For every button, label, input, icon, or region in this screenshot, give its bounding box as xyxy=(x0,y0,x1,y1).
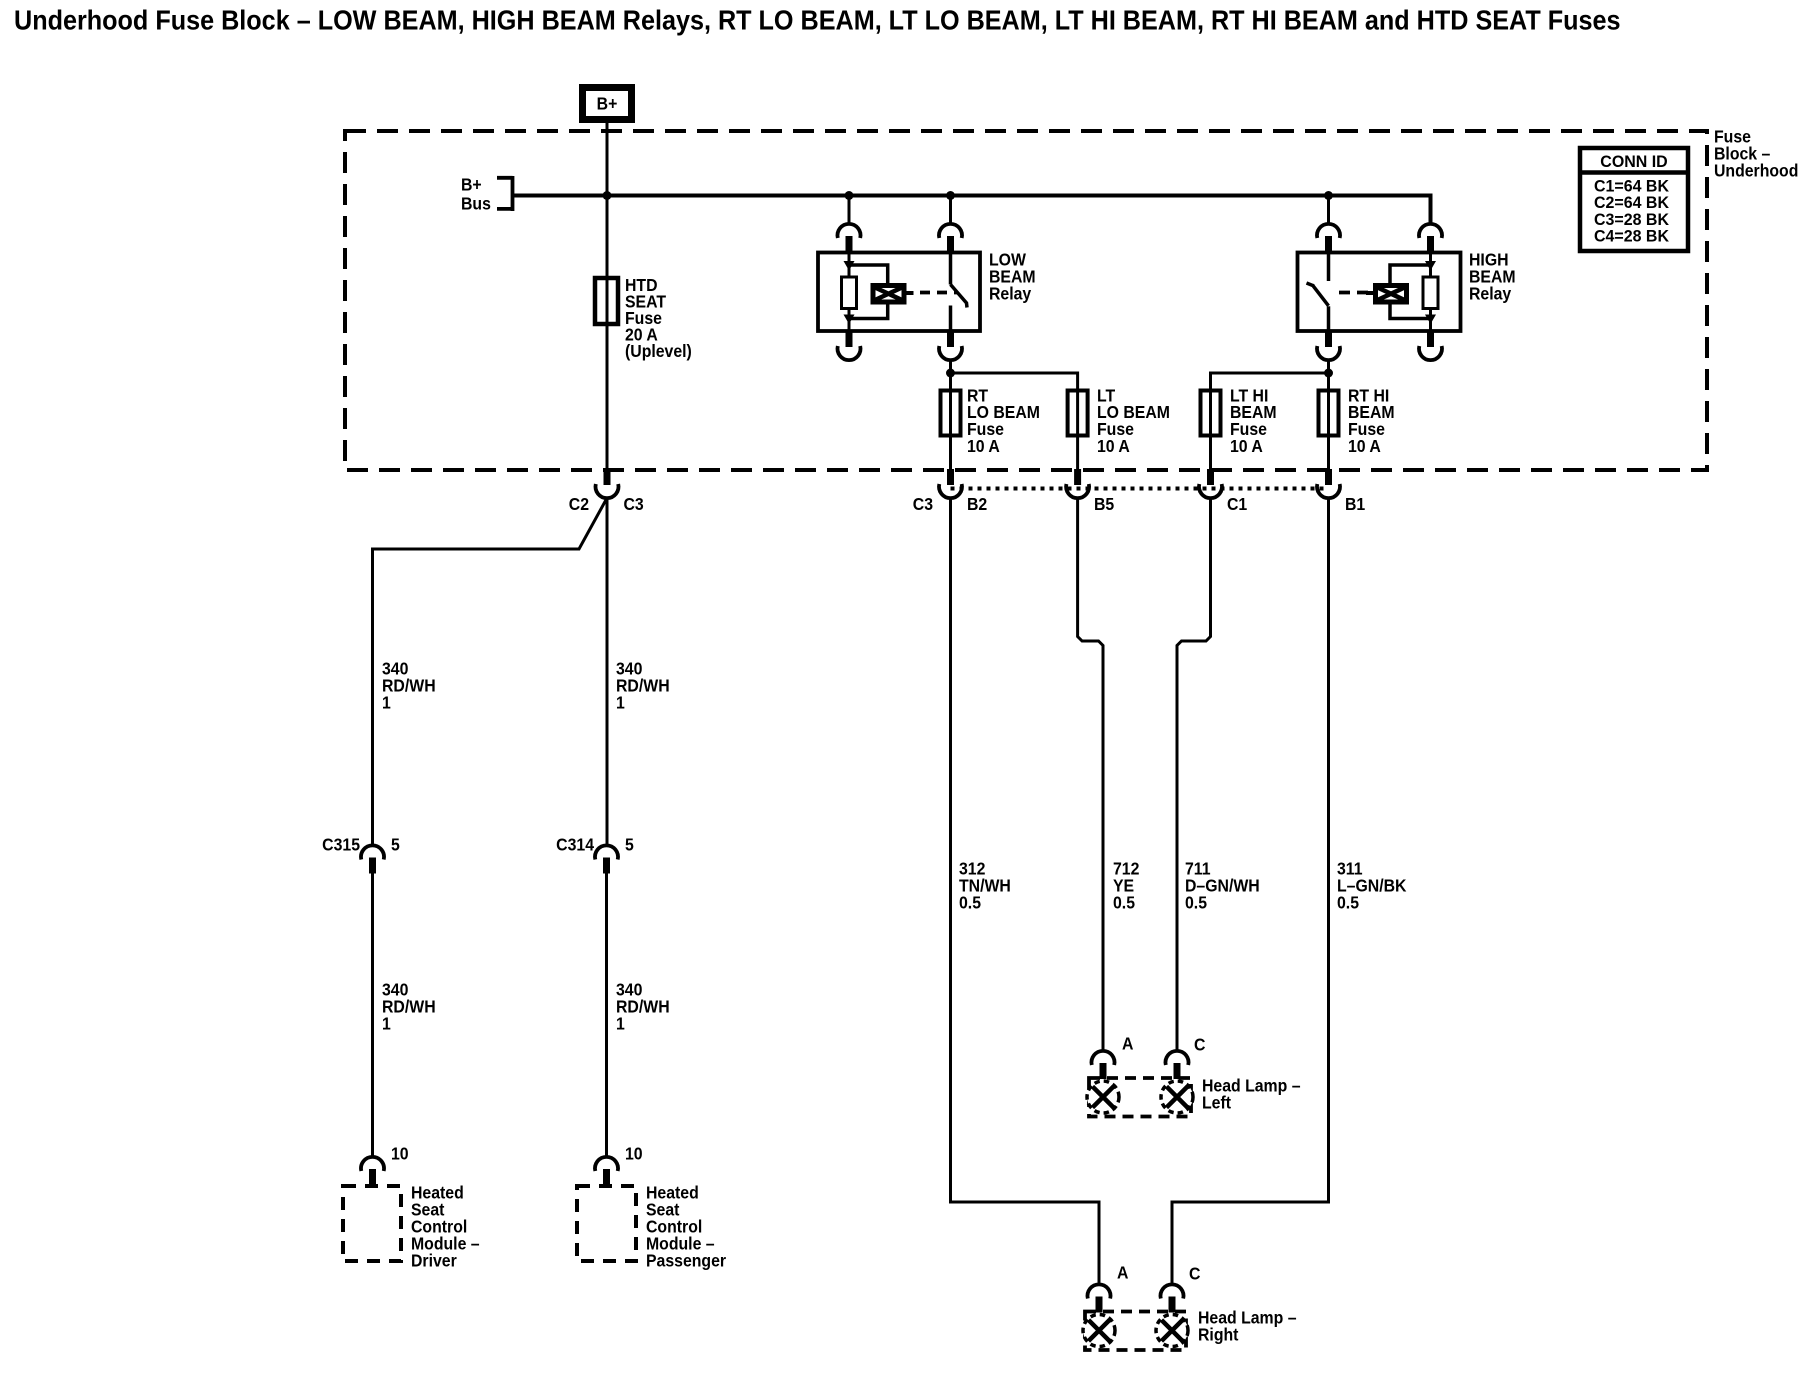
svg-text:10 A: 10 A xyxy=(1230,436,1263,456)
svg-text:Bus: Bus xyxy=(461,193,491,213)
relay: LOW BEAM Relay outline xyxy=(818,253,980,332)
junction on bus at low beam relay coil xyxy=(845,191,854,200)
left head lamp low beam bulb xyxy=(1087,1081,1119,1113)
wire: bus to high beam relay switch pin xyxy=(1327,196,1330,226)
wire: bus to low beam relay coil pin xyxy=(848,196,851,226)
svg-text:C3: C3 xyxy=(913,494,933,514)
connector pin: low beam relay switch (top) xyxy=(939,224,962,238)
low beam relay actuator (dashed) xyxy=(904,291,914,295)
connector pin: high beam relay switch output xyxy=(1325,331,1332,347)
high beam relay actuator (dashed) xyxy=(1366,291,1376,295)
connector pin C right head lamp xyxy=(1161,1284,1184,1298)
high beam relay core (box with X) xyxy=(1376,286,1407,303)
wire: C314 to passenger module xyxy=(605,874,608,1158)
svg-text:C3: C3 xyxy=(624,494,644,514)
svg-text:B+: B+ xyxy=(461,174,482,194)
svg-text:(Uplevel): (Uplevel) xyxy=(625,341,692,361)
svg-text:C314: C314 xyxy=(556,834,594,854)
wire: B5 to left head lamp A (712 YE) xyxy=(1078,498,1103,1053)
svg-text:B5: B5 xyxy=(1094,494,1114,514)
connector pin: high beam relay switch (top) xyxy=(1317,224,1340,238)
high beam relay coil xyxy=(1423,277,1438,309)
svg-text:10: 10 xyxy=(625,1143,643,1163)
wire: branch to LT LO BEAM fuse xyxy=(951,373,1078,470)
svg-text:1: 1 xyxy=(616,692,625,712)
connector C315 pin 5 xyxy=(361,845,384,859)
B+ bus tap bracket xyxy=(497,176,513,211)
left head lamp high beam bulb xyxy=(1161,1081,1193,1113)
connector pin: high beam relay coil (bottom, unused) xyxy=(1427,331,1434,347)
low beam relay loop junction bottom xyxy=(844,315,855,325)
connector pin 10 driver module xyxy=(361,1157,384,1171)
connector B5 at fuse block xyxy=(1074,469,1081,485)
svg-text:C: C xyxy=(1194,1034,1205,1054)
low beam relay coil bypass loop xyxy=(849,265,888,319)
wire: B2 to right head lamp A (312 TN/WH) xyxy=(951,498,1100,1286)
wire: low beam relay output to RT LO BEAM fuse xyxy=(949,360,952,470)
svg-text:A: A xyxy=(1122,1033,1133,1053)
fuse: HTD SEAT 20 A xyxy=(595,278,618,324)
component: Heated Seat Control Module - Passenger (dashed) xyxy=(577,1186,636,1261)
svg-text:Underhood Fuse Block – LOW BEA: Underhood Fuse Block – LOW BEAM, HIGH BE… xyxy=(14,4,1621,36)
high beam relay loop junction top xyxy=(1425,261,1436,271)
low beam relay coil xyxy=(842,277,857,309)
connector pin: low beam relay coil (top) xyxy=(838,224,861,238)
svg-text:5: 5 xyxy=(391,834,400,854)
junction on bus at high beam relay switch xyxy=(1324,191,1333,200)
connector pin: low beam relay coil (bottom, unused) xyxy=(846,331,853,347)
fuse block - underhood (dashed outline) xyxy=(345,131,1707,470)
svg-text:B1: B1 xyxy=(1345,494,1365,514)
svg-text:0.5: 0.5 xyxy=(1185,892,1207,912)
high beam relay switch blade xyxy=(1307,283,1329,306)
wire: B+ feed drop xyxy=(606,123,609,278)
wire: C2 branch to C315 (340 RD/WH) xyxy=(373,498,608,846)
svg-text:C: C xyxy=(1189,1263,1200,1283)
svg-text:C315: C315 xyxy=(322,834,360,854)
connector body dotted line xyxy=(951,487,1329,491)
svg-text:Underhood: Underhood xyxy=(1714,160,1798,180)
high beam relay coil bypass loop xyxy=(1390,265,1431,319)
low beam relay switch contact (bottom) xyxy=(949,306,953,332)
svg-text:Driver: Driver xyxy=(411,1250,457,1270)
svg-text:A: A xyxy=(1117,1262,1128,1282)
high beam relay coil wire xyxy=(1429,253,1432,332)
wire: high beam relay output to RT HI BEAM fuse xyxy=(1327,360,1330,470)
low beam relay core (box with X) xyxy=(873,286,904,303)
wire: B+ bus xyxy=(513,196,1431,226)
high beam relay switch contact (bottom) xyxy=(1327,306,1331,331)
junction low beam output xyxy=(946,369,955,378)
high beam relay loop junction bottom xyxy=(1425,315,1436,325)
svg-text:10: 10 xyxy=(391,1143,409,1163)
svg-text:B+: B+ xyxy=(597,94,618,114)
wire: branch to LT HI BEAM fuse xyxy=(1211,373,1329,470)
svg-text:1: 1 xyxy=(382,692,391,712)
svg-text:10 A: 10 A xyxy=(1348,436,1381,456)
svg-text:Right: Right xyxy=(1198,1324,1239,1344)
low beam relay loop junction top xyxy=(844,261,855,271)
wire: C3 to C314 (340 RD/WH) xyxy=(606,498,609,847)
svg-text:C1: C1 xyxy=(1227,494,1247,514)
high beam relay switch fixed contact (top) xyxy=(1327,253,1331,282)
connector C3/B2 at fuse block xyxy=(947,469,954,485)
connector pin 10 passenger module xyxy=(595,1157,618,1171)
svg-text:0.5: 0.5 xyxy=(1337,892,1359,912)
svg-text:5: 5 xyxy=(625,834,634,854)
connector pin C left head lamp xyxy=(1166,1051,1189,1065)
svg-text:10 A: 10 A xyxy=(967,436,1000,456)
svg-text:B2: B2 xyxy=(967,494,987,514)
svg-text:Relay: Relay xyxy=(1469,283,1512,303)
fuse: RT HI BEAM 10 A xyxy=(1319,391,1339,436)
svg-text:1: 1 xyxy=(382,1013,391,1033)
svg-text:Passenger: Passenger xyxy=(646,1250,726,1270)
junction on bus at low beam relay switch xyxy=(946,191,955,200)
fuse: RT LO BEAM 10 A xyxy=(941,391,961,436)
svg-text:C4=28 BK: C4=28 BK xyxy=(1594,227,1669,246)
right head lamp high beam bulb xyxy=(1156,1315,1188,1347)
svg-text:10 A: 10 A xyxy=(1097,436,1130,456)
connector pin: high beam relay coil (top) xyxy=(1419,224,1442,238)
svg-text:0.5: 0.5 xyxy=(959,892,981,912)
svg-text:1: 1 xyxy=(616,1013,625,1033)
low beam relay coil wire xyxy=(848,253,851,332)
fuse: LT HI BEAM 10 A xyxy=(1201,391,1221,436)
component: Heated Seat Control Module - Driver (dashed) xyxy=(343,1186,401,1261)
svg-text:Relay: Relay xyxy=(989,283,1032,303)
right head lamp low beam bulb xyxy=(1083,1315,1115,1347)
wire: HTD SEAT fuse to C2/C3 connector xyxy=(606,278,609,470)
wire: C1 to left head lamp C (711 D-GN/WH) xyxy=(1177,498,1211,1053)
connector B1 at fuse block xyxy=(1325,469,1332,485)
low beam relay switch blade xyxy=(951,285,968,308)
relay: HIGH BEAM Relay outline xyxy=(1298,253,1461,332)
connector C2/C3 at fuse block xyxy=(604,469,611,485)
svg-text:C2: C2 xyxy=(569,494,589,514)
connector C314 pin 5 xyxy=(595,845,618,859)
connector pin A right head lamp xyxy=(1088,1284,1111,1298)
junction on bus at B+ drop xyxy=(603,191,612,200)
junction high beam output xyxy=(1324,369,1333,378)
svg-text:Left: Left xyxy=(1202,1092,1231,1112)
connector C1 at fuse block xyxy=(1207,469,1214,485)
low beam relay switch fixed contact (top) xyxy=(949,253,953,285)
wire: bus to low beam relay switch pin xyxy=(949,196,952,226)
wire: B1 to right head lamp C (311 L-GN/BK) xyxy=(1172,498,1329,1286)
connector pin: low beam relay switch output xyxy=(947,331,954,347)
svg-text:0.5: 0.5 xyxy=(1113,892,1135,912)
CONN ID table xyxy=(1580,148,1688,251)
connector pin A left head lamp xyxy=(1092,1051,1115,1065)
component: Head Lamp - Right (dashed box) xyxy=(1085,1312,1186,1351)
svg-text:CONN ID: CONN ID xyxy=(1600,152,1668,171)
power feed B+ xyxy=(583,88,632,120)
fuse: LT LO BEAM 10 A xyxy=(1068,391,1088,436)
component: Head Lamp - Left (dashed box) xyxy=(1089,1078,1191,1117)
wire: C315 to driver module xyxy=(371,874,374,1158)
